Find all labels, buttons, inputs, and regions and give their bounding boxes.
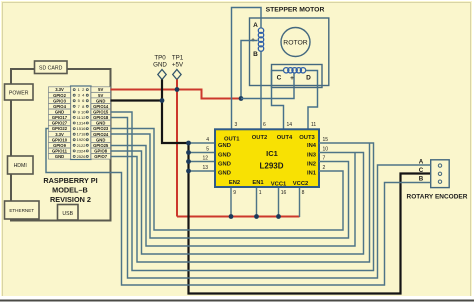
svg-text:GND: GND (96, 121, 105, 126)
GPIO header connector (71, 86, 92, 160)
svg-text:A: A (253, 22, 258, 29)
junction GND stub pin 4 (186, 141, 191, 146)
svg-text:OUT3: OUT3 (299, 135, 315, 141)
GPIO header pin rows (numbers and pin circles) (73, 87, 88, 159)
coil CD (winding 2) (284, 68, 306, 73)
svg-text:OUT4: OUT4 (277, 135, 293, 141)
junction VCC1 on +5V rail (276, 214, 281, 219)
junction GND stub pin 12 (186, 159, 191, 164)
IC top pin numbers 3 6 14 11 (235, 122, 317, 128)
wire terminal C to IC pin14 OUT4 (272, 71, 284, 130)
svg-text:IN3: IN3 (307, 152, 317, 158)
svg-text:IN4: IN4 (307, 143, 317, 149)
svg-text:A: A (419, 158, 424, 165)
svg-text:3.3V: 3.3V (55, 132, 64, 137)
wire TP0 vertical (black) (162, 80, 189, 144)
coil AB (winding 1) (258, 28, 263, 51)
svg-text:5: 5 (206, 146, 209, 152)
svg-text:EN1: EN1 (252, 180, 264, 186)
svg-text:ROTARY ENCODER: ROTARY ENCODER (407, 194, 468, 201)
wire terminal D to IC pin11 OUT3 (306, 71, 318, 130)
svg-text:IN1: IN1 (307, 171, 317, 177)
svg-text:16: 16 (81, 126, 86, 131)
svg-text:VCC1: VCC1 (271, 182, 287, 188)
wire +5V rail to EN2 EN1 VCC1 VCC2 (red) (177, 216, 300, 218)
svg-text:GND: GND (218, 171, 231, 177)
svg-text:OUT1: OUT1 (224, 137, 240, 143)
svg-text:11: 11 (311, 122, 316, 128)
IC bottom pin numbers 9 1 16 8 (233, 190, 304, 196)
svg-text:RASPBERRY PI: RASPBERRY PI (43, 176, 97, 185)
svg-text:GPIO17: GPIO17 (52, 115, 68, 120)
test point TP0 diamond symbol (158, 70, 166, 80)
svg-text:GPIO2: GPIO2 (53, 93, 66, 98)
svg-text:C: C (419, 167, 424, 174)
svg-text:GPIO15: GPIO15 (93, 110, 109, 115)
wire IC pin9 EN2 stub (230, 188, 232, 217)
rotor circle (281, 28, 310, 57)
svg-text:C: C (277, 75, 282, 82)
svg-text:SD CARD: SD CARD (39, 66, 63, 72)
svg-text:9: 9 (233, 190, 236, 196)
svg-text:GND: GND (218, 152, 231, 158)
svg-text:10: 10 (81, 109, 86, 114)
svg-text:REVISION 2: REVISION 2 (50, 195, 91, 204)
wire TP1 +5V vertical down to EN/VCC rail (red) (176, 80, 178, 217)
svg-text:24: 24 (81, 148, 86, 153)
svg-text:GPIO18: GPIO18 (93, 115, 109, 120)
junction GND stub pin 13 (186, 169, 191, 174)
test point TP1 diamond symbol (173, 70, 181, 80)
wire GPIO7 to IC IN4 (111, 143, 370, 262)
svg-text:GPIO14: GPIO14 (93, 104, 109, 109)
svg-text:+5V: +5V (172, 62, 184, 69)
svg-text:B: B (419, 176, 424, 183)
wire terminal A to IC pin3 OUT1 (232, 8, 262, 130)
junction EN2 on +5V rail (229, 214, 234, 219)
svg-text:GND: GND (218, 162, 231, 168)
svg-text:14: 14 (287, 122, 293, 128)
svg-text:GPIO7: GPIO7 (94, 154, 107, 159)
svg-text:12: 12 (202, 156, 208, 162)
rotary encoder contact circles (438, 164, 441, 183)
svg-text:14: 14 (81, 121, 86, 126)
junction GND at TP0 (160, 98, 165, 103)
rotary encoder connector body (431, 160, 450, 188)
svg-text:GPIO8: GPIO8 (94, 149, 107, 154)
svg-text:GND: GND (55, 110, 64, 115)
svg-text:L293D: L293D (259, 162, 283, 171)
wire GND from RPi pin6 to TP0 (black) (111, 99, 163, 101)
wire GPIO24 to IC IN2 (111, 134, 349, 238)
wire GPIO25 to IC IN3 (111, 146, 356, 247)
svg-text:8: 8 (302, 190, 305, 196)
svg-text:OUT2: OUT2 (252, 135, 267, 141)
wire +5V from RPi pin2 to stepper common junction (red) (111, 90, 242, 99)
GPIO left pin labels (pins 1-25) (49, 87, 71, 159)
svg-text:GPIO4: GPIO4 (53, 104, 66, 109)
wire GPIO15 to IC IN4 (111, 112, 374, 271)
wire GPIO23 to IC IN1 (111, 129, 344, 231)
svg-text:IC1: IC1 (266, 149, 278, 158)
svg-text:6: 6 (263, 122, 266, 128)
svg-text:12: 12 (81, 115, 86, 120)
svg-text:HDMI: HDMI (14, 163, 27, 169)
svg-text:5V: 5V (98, 87, 103, 92)
junction +5V at TP1 (175, 87, 180, 92)
svg-text:GPIO24: GPIO24 (93, 132, 109, 137)
svg-text:USB: USB (62, 211, 73, 217)
wire GPIO22 loop around labels to encoder B (46, 129, 431, 286)
USB connector (58, 205, 79, 221)
svg-text:20: 20 (81, 137, 86, 142)
svg-text:1: 1 (259, 190, 262, 196)
wire coil AB center tap to +5V junction (241, 41, 258, 99)
svg-text:POWER: POWER (9, 90, 29, 96)
test point TP1 +5V label (172, 55, 184, 69)
wire +5V common to coil CD center tap (241, 73, 294, 99)
op-amp IC1 L293D driver body (215, 129, 319, 187)
svg-text:B: B (253, 51, 258, 58)
svg-text:D: D (306, 75, 311, 82)
svg-text:GPIO11: GPIO11 (52, 149, 68, 154)
wire GND bus down and across bottom to rotary encoder C (black) (189, 143, 431, 294)
svg-text:GND: GND (218, 143, 231, 149)
svg-text:ETHERNET: ETHERNET (9, 208, 34, 213)
svg-text:2: 2 (323, 165, 326, 171)
wire IC pin1 EN1 stub (256, 188, 258, 217)
svg-text:GPIO3: GPIO3 (53, 98, 66, 103)
svg-text:GND: GND (55, 154, 64, 159)
wire IC pin16 VCC1 stub (278, 188, 280, 217)
svg-text:22: 22 (81, 143, 86, 148)
svg-text:GND: GND (96, 137, 105, 142)
test point TP0 GND label (153, 55, 167, 69)
GPIO right pin labels (pins 2-26) (91, 87, 111, 159)
svg-text:TP1: TP1 (172, 55, 184, 62)
svg-text:GND: GND (96, 98, 105, 103)
svg-text:GPIO23: GPIO23 (93, 126, 109, 131)
svg-text:3: 3 (235, 122, 238, 128)
svg-text:GPIO10: GPIO10 (52, 137, 68, 142)
HDMI connector (8, 156, 34, 174)
svg-text:GPIO25: GPIO25 (93, 143, 109, 148)
svg-text:26: 26 (81, 154, 86, 159)
svg-text:TP0: TP0 (154, 55, 166, 62)
IC left pin numbers 4 5 12 13 (202, 137, 209, 171)
svg-text:GPIO9: GPIO9 (53, 143, 66, 148)
svg-text:ROTOR: ROTOR (283, 39, 308, 46)
coil CD box (272, 65, 323, 88)
svg-text:GPIO27: GPIO27 (52, 121, 68, 126)
raspberry pi board outline (11, 69, 111, 221)
svg-text:+: + (290, 75, 294, 82)
IC right pin numbers 15 10 7 2 (323, 137, 329, 171)
svg-text:EN2: EN2 (229, 180, 240, 186)
svg-text:5V: 5V (98, 93, 103, 98)
svg-text:7: 7 (323, 156, 326, 162)
SD card connector (35, 61, 68, 74)
svg-text:16: 16 (281, 190, 287, 196)
svg-text:3.3V: 3.3V (55, 87, 64, 92)
power connector (5, 84, 34, 100)
wire GPIO18 to encoder A (111, 118, 431, 279)
svg-text:GPIO22: GPIO22 (52, 126, 68, 131)
svg-text:IN2: IN2 (307, 162, 316, 168)
svg-text:MODEL–B: MODEL–B (52, 186, 88, 195)
svg-text:10: 10 (323, 146, 329, 152)
wire GPIO8 to IC IN3 (111, 151, 364, 254)
junction GND stub pin 5 (186, 150, 191, 155)
raspberry pi title text (43, 176, 97, 204)
svg-text:VCC2: VCC2 (293, 181, 308, 187)
svg-text:4: 4 (206, 137, 209, 143)
wire IC pin8 VCC2 stub (299, 188, 301, 217)
junction +5V stepper common (239, 96, 244, 101)
svg-text:GND: GND (153, 62, 167, 69)
ethernet connector (5, 201, 40, 219)
wire IC GND pin stubs to GND bus (189, 143, 216, 171)
svg-text:13: 13 (202, 165, 208, 171)
bottom page rule (0, 296, 474, 303)
svg-text:STEPPER MOTOR: STEPPER MOTOR (266, 7, 325, 14)
junction EN1 on +5V rail (254, 214, 259, 219)
wire terminal B to IC pin6 OUT2 (260, 52, 262, 130)
stepper motor body box (250, 18, 329, 86)
svg-text:18: 18 (81, 132, 86, 137)
IC left pin names GND x4 (218, 143, 231, 177)
